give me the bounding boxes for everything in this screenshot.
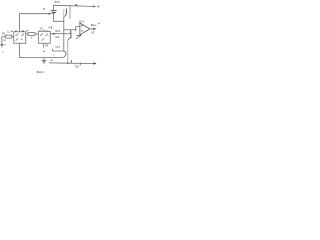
terminal dot top right: [98, 6, 100, 8]
bottom rail end arrowhead: [94, 62, 97, 65]
wire: box2 bottom pin: [43, 43, 45, 47]
wire: long vertical node: [63, 17, 65, 52]
resistor R1 right lead: [12, 36, 14, 38]
small mark near left ground: [5, 44, 6, 45]
faint upper extension of node wire: [63, 9, 65, 17]
resistor R2 body: [28, 33, 35, 36]
current arrow on top rail: [75, 4, 78, 6]
battery BT1 top lead: [54, 5, 70, 10]
adjustment arrow under op-amp: [76, 35, 82, 39]
arrow tip: [80, 35, 81, 37]
transistor Q1 bar: [65, 9, 67, 14]
small mark left of box2 top pin: [48, 26, 51, 29]
IC box U2: [38, 31, 50, 43]
svg-text:R1: R1: [2, 32, 6, 36]
wire: bus to op-amp: [64, 29, 76, 31]
wire: branch down from top rail: [69, 6, 71, 19]
wire: top rail to the right: [70, 5, 95, 8]
box1 inner transistor marks: [16, 34, 24, 41]
svg-text:Вых: Вых: [91, 23, 97, 27]
box2 top pin: [43, 29, 45, 31]
IC box U1: [14, 32, 26, 43]
junction dot on bus: [75, 29, 77, 31]
op-amp U1 triangle: [80, 23, 90, 35]
svg-text:U2: U2: [91, 30, 95, 34]
transistor Q2 emitter: [68, 37, 71, 40]
wire: box2 right pin to Q2 base: [50, 33, 64, 35]
R2 tick below: [30, 37, 32, 39]
wire: base of Q2: [64, 33, 71, 35]
battery BT1 short plate: [52, 12, 56, 14]
transistor Q1 emitter curve: [64, 13, 67, 17]
resistor R1 left lead: [2, 36, 6, 38]
svg-text:R16: R16: [55, 29, 60, 33]
junction dot: [63, 33, 64, 34]
wire: bottom rail: [49, 62, 96, 65]
transistor Q3 squiggle: [63, 51, 66, 58]
arrowhead pointing left on wire: [52, 33, 55, 35]
resistor R1 body: [5, 35, 12, 38]
svg-text:1к5: 1к5: [55, 35, 60, 39]
top rail end arrowhead: [93, 5, 96, 7]
plus sign lower: [81, 30, 83, 32]
wire: op-amp output: [90, 28, 95, 30]
output arrowhead: [93, 28, 96, 30]
box2 inner transistor marks: [40, 34, 48, 41]
wire: jog to op-amp + input: [76, 27, 80, 30]
svg-text:а): а): [50, 59, 52, 62]
arrowhead on input wire: [49, 13, 52, 15]
battery BT1 long plate: [51, 10, 57, 12]
svg-text:У2: У2: [40, 26, 44, 30]
box1 inner small mark: [21, 39, 22, 40]
box1 pin number marks: [11, 31, 13, 32]
tick above bottom rail: [71, 60, 73, 63]
battery BT1 bottom lead: [54, 13, 64, 21]
ground stub left: [1, 37, 3, 44]
box2 pin number marks: [39, 31, 41, 32]
ground symbol mid: [43, 58, 45, 61]
transistor Q2 bar: [70, 31, 72, 38]
plus sign input: [81, 25, 83, 27]
wire: emitter down to bottom rail: [67, 40, 69, 63]
wire: R2 to box2: [35, 33, 38, 35]
junction dot bottom rail: [67, 63, 68, 64]
svg-text:ОУ1: ОУ1: [79, 19, 85, 23]
wire: box1 right pin: [26, 33, 28, 35]
small mark right of Vout: [98, 23, 99, 24]
faint dot below left ground: [2, 51, 3, 52]
svg-text:R17: R17: [75, 66, 80, 69]
svg-text:VT3: VT3: [55, 46, 60, 49]
svg-text:Фиг.2: Фиг.2: [37, 70, 45, 74]
tick on bottom rail: [80, 62, 82, 65]
wire: mid rail with upturned left end: [53, 49, 64, 51]
ground symbol left: [0, 43, 3, 45]
svg-text:БТ1: БТ1: [55, 0, 61, 4]
wire: box1 bottom pin down and lower-left rail: [20, 43, 64, 57]
open terminal dot below box2 pin: [43, 51, 44, 52]
wire: left vertical rail with corner to top horizontal wire: [20, 14, 51, 32]
transistor Q2 collector stub: [69, 30, 71, 32]
